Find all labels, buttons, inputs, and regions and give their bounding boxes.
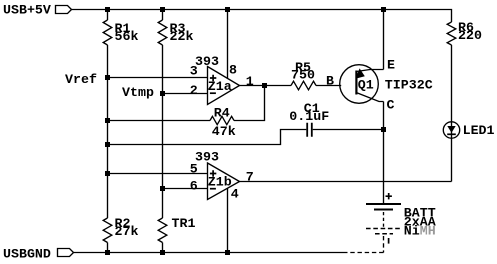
svg-text:TIP32C: TIP32C	[385, 78, 433, 93]
junction ground / R2	[105, 250, 110, 255]
junction Z1a output	[262, 83, 267, 88]
wire pin 5 row	[108, 173, 208, 175]
svg-text:47k: 47k	[212, 124, 236, 139]
svg-text:5: 5	[190, 162, 198, 177]
svg-text:220: 220	[458, 28, 482, 43]
svg-text:NiMH: NiMH	[404, 224, 436, 239]
svg-text:Q1: Q1	[358, 78, 374, 93]
wire Vref node column	[107, 10, 109, 253]
svg-text:Z1b: Z1b	[208, 174, 232, 189]
battery phantom positive plate	[366, 228, 401, 230]
svg-text:1: 1	[246, 74, 254, 89]
svg-text:Vtmp: Vtmp	[122, 85, 154, 100]
junction Vref	[105, 75, 110, 80]
battery phantom negative plate	[375, 233, 393, 235]
junction pin 6 row	[160, 186, 165, 191]
svg-text:C: C	[387, 98, 395, 113]
minus sign Z1b	[210, 188, 216, 190]
resistor R4	[210, 116, 234, 124]
resistor R5	[291, 81, 316, 90]
battery BATT negative plate	[374, 208, 393, 210]
junction C1 row left	[105, 142, 110, 147]
svg-text:393: 393	[195, 149, 219, 164]
resistor R6	[447, 22, 456, 45]
battery minus tick	[388, 238, 390, 244]
connector tag USBGND	[58, 249, 74, 257]
wire emitter to +5V rail	[383, 10, 385, 70]
transistor Q1 emitter arrow	[355, 68, 364, 78]
wire top +5V rail	[72, 10, 452, 23]
svg-text:LED1: LED1	[463, 123, 495, 138]
svg-text:393: 393	[195, 54, 219, 69]
battery phantom link dashes	[383, 212, 385, 227]
junction pin 5 row	[105, 171, 110, 176]
svg-text:B: B	[326, 74, 334, 89]
svg-text:E: E	[387, 57, 395, 72]
wire R6 column	[451, 45, 453, 122]
svg-text:TR1: TR1	[172, 216, 196, 231]
junction top rail / R1	[105, 7, 110, 12]
resistor R2	[103, 218, 112, 243]
svg-text:6: 6	[190, 179, 198, 194]
svg-text:8: 8	[229, 63, 237, 78]
wire pin 8 supply	[227, 10, 229, 79]
wire Vref to pin 3	[108, 77, 208, 79]
capacitor C1	[307, 123, 312, 137]
junction ground / pin4	[225, 250, 230, 255]
wire pin 4 to ground	[227, 189, 229, 253]
op-amp U Z1b	[208, 163, 240, 200]
minus sign Z1a	[210, 92, 216, 94]
LED1 lead	[451, 122, 453, 182]
svg-text:Z1a: Z1a	[208, 79, 232, 94]
transistor Q1 collector lead	[357, 93, 384, 102]
wire R5 to base	[316, 85, 341, 87]
junction top rail / pin8	[225, 7, 230, 12]
wire pin 6 row	[163, 188, 208, 190]
junction R4 row	[105, 118, 110, 123]
junction top rail / Q1 emitter	[381, 7, 386, 12]
junction C1 to collector	[381, 127, 386, 132]
svg-text:USB+5V: USB+5V	[3, 2, 51, 17]
svg-text:22k: 22k	[170, 29, 194, 44]
junction ground / TR1	[160, 250, 165, 255]
connector tag USB+5V	[56, 6, 72, 14]
wire pin 7 output to LED	[240, 181, 452, 183]
svg-text:USBGND: USBGND	[3, 246, 51, 261]
battery phantom return dashes	[346, 236, 384, 253]
wire Vtmp to pin 2	[163, 93, 208, 95]
svg-text:R4: R4	[214, 106, 230, 121]
wire ground rail	[74, 252, 347, 254]
svg-text:2: 2	[190, 83, 198, 98]
resistor R1	[103, 20, 112, 45]
resistor R3	[158, 20, 167, 45]
transistor Q1 emitter lead	[357, 70, 384, 72]
svg-text:Vref: Vref	[65, 72, 97, 87]
transistor Q1 body	[340, 65, 379, 104]
wire Vtmp node column	[162, 10, 164, 253]
svg-text:4: 4	[231, 186, 239, 201]
wire Z1a output	[240, 85, 292, 87]
transistor Q1 base bar	[355, 71, 357, 95]
wire collector to battery	[383, 102, 385, 204]
plus sign Z1a	[210, 75, 216, 81]
svg-text:3: 3	[190, 64, 198, 79]
LED1 body	[443, 122, 459, 138]
battery plus sign	[386, 193, 392, 199]
LED1 cathode bar	[447, 133, 456, 135]
svg-text:56k: 56k	[115, 29, 139, 44]
svg-text:27k: 27k	[115, 224, 139, 239]
thermistor TR1	[158, 218, 167, 243]
wire C1 row	[108, 130, 384, 145]
svg-text:750: 750	[291, 68, 315, 83]
svg-text:0.1uF: 0.1uF	[289, 109, 329, 124]
junction top rail / R3	[160, 7, 165, 12]
op-amp U Z1a	[208, 67, 240, 105]
LED1 anode triangle	[447, 126, 455, 133]
battery BATT positive plate	[366, 203, 401, 205]
junction Vtmp	[160, 91, 165, 96]
plus sign Z1b	[210, 170, 216, 176]
wire R4 feedback row	[108, 86, 265, 121]
